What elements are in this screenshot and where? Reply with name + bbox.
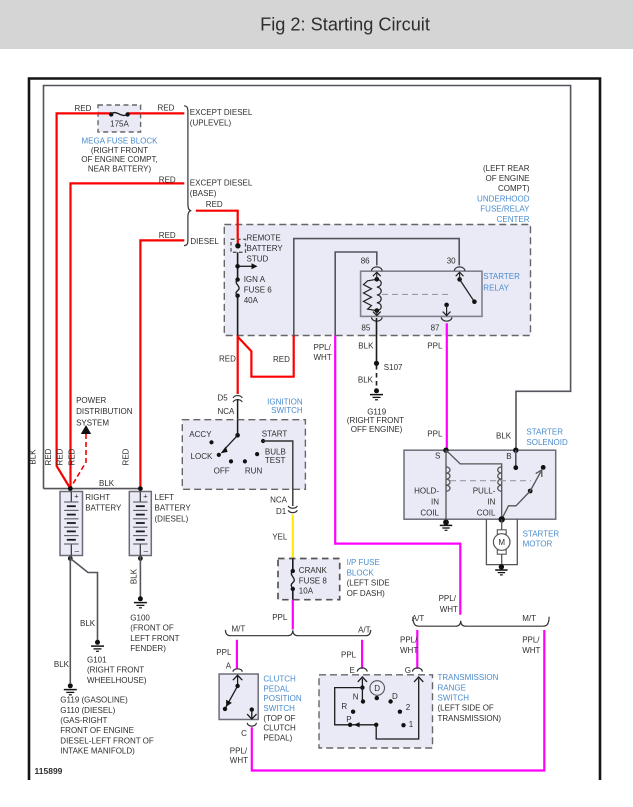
svg-text:TRANSMISSION: TRANSMISSION bbox=[438, 673, 499, 682]
svg-text:PPL/: PPL/ bbox=[230, 747, 248, 756]
underhood fuse/relay center (dashed box) bbox=[224, 164, 530, 336]
wire BLK right battery negative to G119/G110 bbox=[54, 556, 73, 684]
wire D5 to ignition switch pivot bbox=[237, 399, 239, 435]
svg-text:D: D bbox=[374, 684, 380, 693]
title banner bbox=[0, 0, 633, 49]
svg-text:NCA: NCA bbox=[218, 407, 236, 416]
svg-text:BLOCK: BLOCK bbox=[347, 568, 375, 577]
splice brace M/T / A/T (lower) bbox=[225, 625, 370, 636]
svg-text:BATTERY: BATTERY bbox=[85, 504, 122, 513]
wire relay pin 86 to PPL/WHT drop bbox=[335, 252, 377, 336]
sheet number 115899 bbox=[35, 766, 63, 776]
svg-text:(LEFT SIDE: (LEFT SIDE bbox=[347, 579, 390, 588]
right battery bbox=[60, 492, 122, 556]
svg-text:SWITCH: SWITCH bbox=[263, 704, 295, 713]
wire RED from mega fuse to options brace bbox=[128, 104, 185, 114]
wire BLK relay pin 85 to S107 bbox=[358, 318, 376, 363]
svg-text:SYSTEM: SYSTEM bbox=[76, 419, 109, 428]
svg-text:MEGA FUSE BLOCK: MEGA FUSE BLOCK bbox=[81, 136, 158, 145]
svg-text:WHT: WHT bbox=[400, 646, 418, 655]
options brace (except diesel / diesel) bbox=[184, 106, 253, 246]
starter solenoid bbox=[404, 427, 568, 519]
svg-text:RUN: RUN bbox=[245, 466, 263, 475]
svg-text:D5: D5 bbox=[218, 393, 229, 402]
svg-text:P: P bbox=[346, 715, 351, 724]
wire YEL D1 to crank fuse bbox=[272, 515, 293, 559]
svg-text:COIL: COIL bbox=[420, 509, 439, 518]
wire BLK left battery negative to G100 bbox=[130, 556, 143, 597]
node left battery positive bbox=[138, 486, 143, 491]
svg-text:86: 86 bbox=[361, 257, 370, 266]
pin G connector bbox=[405, 666, 423, 675]
solenoid mechanical link (dashed) bbox=[450, 480, 531, 482]
svg-text:OF ENGINE: OF ENGINE bbox=[485, 174, 529, 183]
pin 86 connector bbox=[361, 257, 382, 271]
svg-text:BLK: BLK bbox=[80, 619, 96, 628]
svg-text:RED: RED bbox=[44, 448, 53, 465]
I/P fuse block (dashed box) bbox=[278, 558, 390, 600]
svg-text:PEDAL): PEDAL) bbox=[263, 733, 292, 742]
splice brace A/T / M/T (upper right) bbox=[412, 594, 549, 626]
svg-text:EXCEPT DIESEL: EXCEPT DIESEL bbox=[190, 179, 253, 188]
pin 30 connector bbox=[447, 257, 465, 271]
svg-text:BLK: BLK bbox=[99, 479, 115, 488]
relay coil (resistor + winding) bbox=[364, 272, 382, 315]
svg-text:EXCEPT DIESEL: EXCEPT DIESEL bbox=[190, 108, 253, 117]
ignition switch blade (to LOCK) bbox=[221, 420, 240, 454]
svg-text:BLK: BLK bbox=[358, 341, 374, 350]
svg-text:+: + bbox=[74, 492, 79, 501]
ignition switch position contacts bbox=[189, 429, 287, 475]
node solenoid output junction bbox=[499, 516, 505, 522]
diagram border frame bbox=[29, 79, 600, 781]
svg-text:FENDER): FENDER) bbox=[130, 644, 166, 653]
svg-text:RIGHT: RIGHT bbox=[85, 493, 110, 502]
svg-text:DISTRIBUTION: DISTRIBUTION bbox=[76, 407, 133, 416]
svg-text:175A: 175A bbox=[110, 119, 129, 128]
svg-text:M: M bbox=[498, 538, 505, 547]
svg-text:PPL/: PPL/ bbox=[314, 343, 332, 352]
svg-text:87: 87 bbox=[431, 323, 440, 332]
svg-text:WHEELHOUSE): WHEELHOUSE) bbox=[87, 676, 147, 685]
svg-text:LEFT FRONT: LEFT FRONT bbox=[130, 634, 179, 643]
node solenoid S terminal bbox=[443, 448, 448, 453]
svg-text:S107: S107 bbox=[384, 363, 403, 372]
svg-text:+: + bbox=[143, 492, 148, 501]
wire PPL/WHT to trans range switch pin G bbox=[400, 630, 418, 669]
wire RED diesel branch to left battery bbox=[140, 231, 184, 489]
svg-text:RED: RED bbox=[159, 176, 176, 185]
svg-text:WHT: WHT bbox=[230, 756, 248, 765]
svg-text:(TOP OF: (TOP OF bbox=[263, 714, 295, 723]
ground G100 bbox=[130, 596, 179, 653]
transmission range switch (dashed box) bbox=[319, 673, 501, 748]
svg-text:BLK: BLK bbox=[358, 375, 374, 384]
svg-text:IGN A: IGN A bbox=[244, 275, 266, 284]
clutch switch contacts and blade bbox=[223, 675, 257, 719]
wire PPL/WHT clutch switch pin C labels bbox=[230, 747, 248, 766]
svg-text:S: S bbox=[435, 452, 440, 461]
svg-text:PEDAL: PEDAL bbox=[263, 684, 290, 693]
svg-text:OF DASH): OF DASH) bbox=[347, 589, 386, 598]
wire PPL relay pin 87 to solenoid S bbox=[427, 323, 447, 450]
svg-text:BLK: BLK bbox=[130, 568, 139, 584]
svg-text:30: 30 bbox=[447, 257, 456, 266]
ignition switch (dashed box) bbox=[182, 397, 305, 489]
power distribution system arrow bbox=[71, 396, 133, 488]
svg-text:G119: G119 bbox=[367, 407, 387, 416]
wire BLK battery positive cable (left riser, top run, right drop to solenoid B) bbox=[44, 86, 571, 489]
svg-text:I/P FUSE: I/P FUSE bbox=[347, 558, 380, 567]
wire RED feed to mega fuse (except diesel uplevel) bbox=[57, 104, 112, 488]
relay switch blade pin30 to pin87 bbox=[443, 272, 477, 315]
svg-text:MOTOR: MOTOR bbox=[523, 540, 553, 549]
clutch pedal position switch bbox=[219, 674, 302, 742]
svg-text:RED: RED bbox=[56, 448, 65, 465]
wire PPL/WHT relay pin 86 output (magenta riser) bbox=[314, 336, 461, 615]
svg-text:A/T: A/T bbox=[412, 614, 425, 623]
svg-text:STARTER: STARTER bbox=[523, 529, 560, 538]
svg-text:PULL-: PULL- bbox=[473, 486, 496, 495]
pin 85 connector bbox=[361, 317, 382, 332]
svg-text:PPL/: PPL/ bbox=[400, 636, 418, 645]
svg-text:NEAR BATTERY): NEAR BATTERY) bbox=[88, 164, 152, 173]
svg-text:BLK: BLK bbox=[29, 449, 38, 465]
svg-text:SWITCH: SWITCH bbox=[438, 694, 470, 703]
svg-text:TRANSMISSION): TRANSMISSION) bbox=[438, 714, 502, 723]
svg-text:PPL/: PPL/ bbox=[522, 636, 540, 645]
svg-text:(UPLEVEL): (UPLEVEL) bbox=[190, 118, 232, 127]
svg-text:WHT: WHT bbox=[522, 646, 540, 655]
relay mechanical link (dashed) bbox=[382, 293, 452, 295]
svg-text:Fig 2: Starting Circuit: Fig 2: Starting Circuit bbox=[260, 15, 430, 35]
svg-text:COMPT): COMPT) bbox=[498, 184, 530, 193]
wire to relay pin 30 (inside box) bbox=[294, 239, 459, 336]
svg-text:G101: G101 bbox=[87, 656, 107, 665]
svg-text:–: – bbox=[75, 547, 80, 556]
pin A connector bbox=[226, 661, 243, 671]
svg-text:(LEFT SIDE OF: (LEFT SIDE OF bbox=[438, 704, 494, 713]
svg-text:STUD: STUD bbox=[247, 255, 269, 264]
solenoid pull-in coil bbox=[446, 450, 502, 519]
ground G119/G110 bbox=[60, 683, 154, 755]
svg-text:2: 2 bbox=[406, 703, 411, 712]
svg-text:COIL: COIL bbox=[477, 509, 496, 518]
svg-text:FUSE/RELAY: FUSE/RELAY bbox=[480, 205, 530, 214]
ground at starter motor bbox=[495, 564, 507, 575]
svg-text:A/T: A/T bbox=[358, 626, 371, 635]
svg-text:DIESEL-LEFT FRONT OF: DIESEL-LEFT FRONT OF bbox=[60, 736, 154, 745]
svg-text:LEFT: LEFT bbox=[155, 493, 175, 502]
wire PPL to clutch switch pin A bbox=[216, 640, 237, 669]
node right battery positive bbox=[68, 486, 73, 491]
svg-text:N: N bbox=[353, 692, 359, 701]
svg-text:SWITCH: SWITCH bbox=[271, 406, 303, 415]
svg-text:IGNITION: IGNITION bbox=[267, 397, 303, 406]
left battery (diesel) bbox=[129, 492, 191, 556]
svg-text:M/T: M/T bbox=[232, 625, 246, 634]
svg-text:RED: RED bbox=[75, 104, 92, 113]
svg-text:STARTER: STARTER bbox=[483, 272, 520, 281]
wire BLK branch to G101 bbox=[70, 558, 97, 640]
svg-text:POSITION: POSITION bbox=[263, 694, 301, 703]
wire RED ignition feed (box edge to D5) bbox=[219, 336, 238, 395]
wire PPL to trans range switch pin E bbox=[341, 640, 362, 669]
svg-text:FRONT OF ENGINE: FRONT OF ENGINE bbox=[60, 726, 134, 735]
svg-text:M/T: M/T bbox=[522, 614, 536, 623]
svg-text:ACCY: ACCY bbox=[189, 430, 212, 439]
svg-text:CRANK: CRANK bbox=[299, 566, 328, 575]
svg-text:DIESEL: DIESEL bbox=[190, 237, 219, 246]
mega fuse block (175A) bbox=[81, 105, 158, 173]
svg-text:(DIESEL): (DIESEL) bbox=[155, 514, 189, 523]
svg-text:RED: RED bbox=[206, 200, 223, 209]
wire RED except diesel (base) bbox=[71, 176, 185, 489]
wire BLK battery link between batteries bbox=[44, 488, 141, 490]
svg-text:C: C bbox=[241, 729, 247, 738]
svg-text:(RIGHT FRONT: (RIGHT FRONT bbox=[347, 416, 404, 425]
svg-text:WHT: WHT bbox=[440, 605, 458, 614]
svg-text:BATTERY: BATTERY bbox=[247, 244, 284, 253]
solenoid hold-in coil bbox=[414, 450, 450, 519]
svg-text:PPL: PPL bbox=[427, 430, 443, 439]
svg-text:G100: G100 bbox=[130, 613, 150, 622]
svg-text:REMOTE: REMOTE bbox=[247, 234, 281, 243]
connector D5 bbox=[218, 393, 243, 416]
svg-text:IN: IN bbox=[431, 498, 439, 507]
pin C connector bbox=[241, 723, 256, 738]
svg-text:(RIGHT FRONT: (RIGHT FRONT bbox=[91, 146, 148, 155]
wire START contact to D1 bbox=[263, 441, 293, 506]
splice S107 bbox=[374, 361, 403, 373]
svg-text:B: B bbox=[506, 452, 511, 461]
svg-text:(GAS-RIGHT: (GAS-RIGHT bbox=[60, 716, 107, 725]
ground at solenoid hold-in coil bbox=[440, 519, 452, 530]
svg-text:(BASE): (BASE) bbox=[190, 189, 217, 198]
svg-text:LOCK: LOCK bbox=[191, 452, 213, 461]
wire BLK S107 to G119 (dashed) bbox=[358, 365, 377, 389]
svg-text:G119 (GASOLINE): G119 (GASOLINE) bbox=[60, 696, 128, 705]
svg-text:PPL/: PPL/ bbox=[439, 594, 457, 603]
svg-text:10A: 10A bbox=[299, 587, 314, 596]
node feed splice with arrow to other circuits bbox=[235, 263, 257, 269]
wire RED brace output to remote battery stud bbox=[196, 200, 238, 239]
svg-text:115899: 115899 bbox=[35, 766, 63, 776]
svg-text:TEST: TEST bbox=[265, 456, 286, 465]
pin 87 connector bbox=[431, 317, 452, 332]
svg-text:1: 1 bbox=[409, 720, 414, 729]
svg-text:G: G bbox=[405, 666, 411, 675]
svg-text:BLK: BLK bbox=[54, 660, 70, 669]
svg-text:CLUTCH: CLUTCH bbox=[263, 724, 296, 733]
fuse CRANK FUSE 8 10A bbox=[291, 559, 328, 600]
svg-text:UNDERHOOD: UNDERHOOD bbox=[477, 194, 530, 203]
svg-text:RELAY: RELAY bbox=[483, 284, 509, 293]
svg-text:OF ENGINE COMPT,: OF ENGINE COMPT, bbox=[81, 155, 157, 164]
svg-text:STARTER: STARTER bbox=[526, 427, 563, 436]
svg-text:INTAKE MANIFOLD): INTAKE MANIFOLD) bbox=[60, 747, 135, 756]
svg-text:RED: RED bbox=[68, 448, 77, 465]
svg-text:OFF: OFF bbox=[214, 466, 230, 475]
wire RED loop to relay pin 30 feed bbox=[238, 336, 294, 377]
svg-text:FUSE 8: FUSE 8 bbox=[299, 576, 328, 585]
svg-text:RED: RED bbox=[219, 355, 236, 364]
svg-text:R: R bbox=[341, 702, 347, 711]
svg-text:(RIGHT FRONT: (RIGHT FRONT bbox=[87, 666, 144, 675]
wire fuse output down to box edge bbox=[237, 296, 239, 336]
svg-text:SOLENOID: SOLENOID bbox=[526, 438, 568, 447]
connector D1 bbox=[270, 495, 297, 516]
svg-text:WHT: WHT bbox=[314, 353, 332, 362]
ground G119 (engine) bbox=[347, 388, 404, 434]
starter motor bbox=[486, 519, 559, 564]
svg-text:PPL: PPL bbox=[216, 648, 232, 657]
svg-text:D: D bbox=[392, 692, 398, 701]
svg-text:–: – bbox=[144, 547, 149, 556]
solenoid switch blade bbox=[502, 465, 546, 519]
svg-text:BLK: BLK bbox=[496, 431, 512, 440]
svg-text:PPL: PPL bbox=[427, 341, 443, 350]
svg-text:E: E bbox=[350, 666, 355, 675]
svg-text:(LEFT REAR: (LEFT REAR bbox=[483, 164, 530, 173]
wire stud to IGN A fuse bbox=[237, 252, 239, 279]
svg-text:85: 85 bbox=[361, 323, 370, 332]
svg-text:G110 (DIESEL): G110 (DIESEL) bbox=[60, 706, 115, 715]
node solenoid B terminal bbox=[513, 448, 518, 471]
svg-text:CLUTCH: CLUTCH bbox=[263, 675, 296, 684]
svg-text:HOLD-: HOLD- bbox=[414, 486, 439, 495]
trans switch internal wiring bbox=[335, 677, 424, 739]
svg-text:RED: RED bbox=[158, 104, 175, 113]
svg-text:40A: 40A bbox=[244, 296, 259, 305]
svg-text:IN: IN bbox=[487, 498, 495, 507]
svg-text:CENTER: CENTER bbox=[497, 215, 530, 224]
pin E connector bbox=[350, 666, 368, 675]
svg-text:PPL: PPL bbox=[341, 651, 357, 660]
fuse IGN A FUSE 6 40A bbox=[235, 275, 272, 305]
svg-text:A: A bbox=[226, 661, 232, 670]
svg-text:D1: D1 bbox=[276, 507, 287, 516]
starter relay bbox=[361, 271, 521, 316]
rotated wire labels at batteries bbox=[29, 448, 131, 465]
svg-text:NCA: NCA bbox=[270, 495, 288, 504]
svg-text:RANGE: RANGE bbox=[438, 683, 466, 692]
wire PPL crank fuse output bbox=[272, 600, 293, 630]
trans switch position contacts bbox=[341, 681, 413, 729]
ground G101 bbox=[87, 640, 147, 685]
svg-text:PPL: PPL bbox=[272, 613, 288, 622]
svg-text:FUSE 6: FUSE 6 bbox=[244, 286, 273, 295]
svg-text:POWER: POWER bbox=[76, 396, 106, 405]
svg-text:RED: RED bbox=[159, 231, 176, 240]
remote battery stud bbox=[231, 234, 283, 264]
wire PPL/WHT M/T return path (right side) bbox=[252, 630, 545, 771]
svg-text:(FRONT OF: (FRONT OF bbox=[130, 624, 174, 633]
svg-text:RED: RED bbox=[273, 355, 290, 364]
svg-text:BATTERY: BATTERY bbox=[155, 504, 192, 513]
svg-text:START: START bbox=[262, 429, 288, 438]
svg-text:YEL: YEL bbox=[272, 533, 288, 542]
svg-text:RED: RED bbox=[122, 448, 131, 465]
svg-text:OFF ENGINE): OFF ENGINE) bbox=[351, 425, 403, 434]
